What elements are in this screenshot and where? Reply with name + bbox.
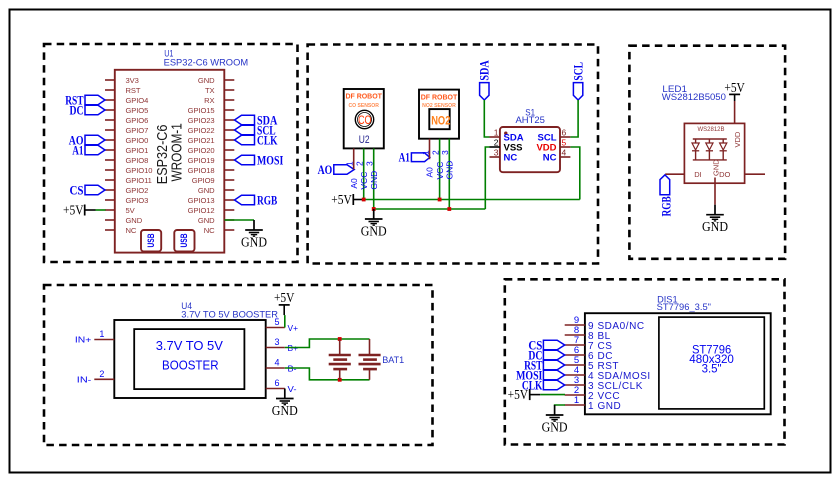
section outline: gas sensors [308, 45, 598, 264]
U1 right pin stubs [224, 80, 234, 230]
svg-text:GND: GND [702, 219, 728, 234]
U4 pin 2 stub [94, 378, 114, 380]
svg-text:1 GND: 1 GND [588, 401, 621, 412]
microcontroller U1 body [115, 70, 225, 253]
wire +5V to U1 5V pin [96, 209, 106, 211]
power flag +5V (LED1 VDD) [724, 80, 745, 101]
svg-text:IN-: IN- [77, 374, 92, 384]
S1 pin 5 stub [560, 146, 570, 148]
wire +5V to DIS1 VCC pin [540, 394, 565, 396]
LED1 DO pin stub [745, 173, 765, 175]
svg-text:RGB: RGB [257, 192, 278, 207]
svg-text:GPIO13: GPIO13 [188, 196, 215, 205]
svg-text:RX: RX [204, 96, 214, 105]
wire U2 pin 2 VCC to +5V rail [363, 148, 365, 199]
wire +5V rail [364, 199, 580, 201]
svg-text:GND: GND [126, 216, 143, 225]
gas sensor module (DF ROBOT NO2 sensor) [419, 90, 459, 139]
svg-text:GPIO23: GPIO23 [188, 116, 215, 125]
svg-text:3.7V TO 5V: 3.7V TO 5V [156, 338, 224, 353]
ground LED1 [702, 205, 728, 234]
S1 pin 3 stub [490, 156, 500, 158]
svg-text:3: 3 [274, 337, 279, 347]
svg-text:1: 1 [345, 161, 355, 166]
svg-text:+5V: +5V [508, 387, 529, 402]
svg-text:SCL: SCL [570, 62, 585, 81]
U4 pin 1 stub [94, 339, 114, 341]
net flag CLK [235, 132, 279, 147]
LED1 internal LED element 1 [692, 139, 699, 160]
U2 pin names A0 VCC GND [349, 171, 379, 190]
U4 pin 5 stub [266, 327, 285, 329]
svg-text:GPIO11: GPIO11 [126, 176, 152, 185]
U1 USB connector block 1 [141, 230, 161, 251]
power flag +5V (sensor rail) [331, 192, 363, 207]
LED1 cathode rail [693, 159, 727, 161]
svg-text:GPIO6: GPIO6 [126, 116, 149, 125]
junction at battery top [338, 337, 342, 341]
svg-text:GPIO15: GPIO15 [188, 106, 215, 115]
U4 pin 6 stub [266, 388, 285, 390]
svg-text:CO: CO [358, 113, 371, 127]
net flag SCL [235, 122, 276, 137]
svg-text:4: 4 [562, 147, 567, 157]
svg-text:NC: NC [204, 226, 215, 235]
svg-text:GPIO0: GPIO0 [126, 136, 149, 145]
svg-text:U2: U2 [359, 134, 370, 146]
svg-text:A0: A0 [349, 178, 359, 189]
svg-text:DF ROBOT: DF ROBOT [345, 92, 382, 101]
wire U1 GND pin to ground [224, 219, 254, 221]
net flag RGB (vertical) [659, 175, 674, 217]
U1 left pin stubs [105, 80, 115, 230]
U4 pin names V+ B+ B- V- [288, 323, 299, 394]
svg-text:RST: RST [126, 86, 141, 95]
svg-text:3: 3 [440, 150, 450, 155]
svg-text:GND: GND [198, 216, 215, 225]
svg-text:ESP32-C6 WROOM: ESP32-C6 WROOM [164, 58, 249, 68]
wire SCL flag to S1 pin6 [570, 100, 578, 137]
U4 pin names IN+ IN- [75, 334, 92, 384]
svg-text:USB: USB [146, 233, 157, 247]
svg-text:WS2812B: WS2812B [697, 127, 724, 133]
ground U1 [241, 220, 267, 249]
gas sensor module U2 (DF ROBOT CO sensor) [344, 89, 384, 148]
svg-text:5: 5 [562, 137, 567, 147]
svg-text:GND: GND [361, 223, 387, 238]
svg-text:NC: NC [504, 153, 518, 164]
svg-text:GND: GND [241, 234, 267, 249]
net flag RST (display) [524, 357, 565, 372]
DIS1 screen box [659, 317, 764, 409]
net flag A1 [72, 142, 105, 157]
svg-text:DF ROBOT: DF ROBOT [421, 92, 458, 101]
svg-text:GPIO1: GPIO1 [126, 146, 149, 155]
svg-text:BAT1: BAT1 [382, 355, 404, 365]
svg-text:IN+: IN+ [75, 334, 91, 344]
LED1 DI pin stub [665, 173, 684, 175]
svg-text:6: 6 [562, 127, 567, 137]
svg-text:USB: USB [179, 233, 190, 247]
S1 pin numbers [494, 127, 567, 157]
svg-text:1: 1 [494, 127, 499, 137]
LED1 internal LED element 2 [706, 139, 713, 160]
NO2 sensor pin 1 stub (A0) [429, 139, 431, 160]
svg-text:GND: GND [198, 76, 215, 85]
wire NO2 pin 3 GND to ground rail [448, 139, 450, 209]
svg-text:3.5": 3.5" [702, 362, 722, 376]
svg-text:GND: GND [445, 161, 455, 180]
NO2 sensor pin names A0 VCC GND [425, 161, 455, 180]
svg-text:2: 2 [99, 369, 104, 379]
ground sensor rail [361, 209, 387, 238]
svg-text:WS2812B5050: WS2812B5050 [662, 92, 726, 103]
section outline: RGB LED [629, 46, 785, 259]
svg-text:A1: A1 [399, 149, 410, 164]
net flag CS [70, 182, 106, 197]
svg-text:BOOSTER: BOOSTER [162, 357, 219, 372]
svg-text:VCC: VCC [359, 172, 369, 190]
svg-text:TX: TX [205, 86, 215, 95]
svg-text:+5V: +5V [724, 80, 745, 95]
wire DIS1 GND pin to ground [555, 404, 565, 407]
svg-text:6: 6 [274, 378, 279, 388]
junction at U2 VCC [362, 198, 366, 202]
DIS1 outside pin numbers 9..1 [574, 315, 579, 406]
DIS1 screen text [689, 343, 734, 376]
ground U4 V- [272, 389, 298, 418]
net flag SDA [235, 112, 278, 127]
U2 pin numbers 1 2 3 [345, 161, 375, 166]
svg-text:GPIO2: GPIO2 [126, 186, 149, 195]
svg-text:3.7V TO 5V BOOSTER: 3.7V TO 5V BOOSTER [181, 309, 278, 319]
wire ground rail [374, 208, 486, 210]
svg-text:1: 1 [574, 395, 579, 406]
svg-text:4: 4 [274, 358, 279, 368]
S1 pin 4 stub [560, 156, 570, 158]
net flag RGB [235, 192, 278, 207]
svg-text:AO: AO [318, 162, 333, 177]
svg-text:2: 2 [494, 137, 499, 147]
svg-text:2: 2 [355, 161, 365, 166]
wire SDA flag to S1 pin1 [484, 100, 489, 137]
wire +5V to U4 pin5 [284, 315, 286, 327]
svg-text:+5V: +5V [63, 203, 84, 218]
svg-text:GPIO22: GPIO22 [188, 126, 215, 135]
svg-text:GND: GND [369, 171, 379, 190]
junction at NO2 VCC [438, 198, 442, 202]
svg-text:3V3: 3V3 [126, 76, 139, 85]
section outline: display [505, 279, 785, 444]
net flag A1 (NO2 analog out) [399, 149, 430, 164]
net flag MOSI [235, 152, 284, 167]
svg-text:GPIO12: GPIO12 [188, 206, 215, 215]
net flag SDA [477, 60, 492, 100]
U1 left pin names [126, 76, 153, 235]
svg-text:1: 1 [420, 150, 430, 155]
svg-text:GPIO7: GPIO7 [126, 126, 149, 135]
LED1 GND pin lead [714, 178, 716, 205]
wire +5V to LED1 VDD pin [734, 101, 736, 134]
svg-text:A0: A0 [425, 167, 435, 178]
LED LED1 body [684, 123, 744, 183]
U2 pin 1 stub (A0) [353, 148, 355, 169]
svg-text:GPIO3: GPIO3 [126, 196, 149, 205]
net flag CS (display) [528, 337, 564, 352]
wire VSS riser to AHT25 pin2 [485, 147, 489, 209]
svg-text:A1: A1 [72, 142, 83, 157]
svg-text:+5V: +5V [331, 192, 352, 207]
svg-text:3: 3 [494, 147, 499, 157]
svg-text:AHT25: AHT25 [516, 115, 545, 125]
boost converter U4 outer body [114, 320, 265, 398]
svg-text:V-: V- [288, 384, 297, 394]
ground DIS1 [542, 405, 568, 434]
section outline: ESP32 MCU [44, 44, 298, 262]
svg-text:CO SENSOR: CO SENSOR [348, 103, 379, 109]
DIS1 inside pin numbers and names [588, 321, 651, 412]
section outline: boost converter [44, 285, 433, 445]
svg-text:V+: V+ [288, 323, 299, 333]
svg-text:GND: GND [542, 419, 568, 434]
net flag RST [65, 92, 105, 107]
svg-text:GPIO8: GPIO8 [126, 156, 149, 165]
junction at U2 GND [372, 207, 376, 211]
U4 pin 3 stub [266, 347, 285, 349]
LED1 internal LED element 3 [720, 139, 727, 160]
svg-text:GPIO5: GPIO5 [126, 106, 149, 115]
junction at battery bottom [338, 378, 342, 382]
svg-text:5: 5 [274, 317, 279, 327]
svg-text:NC: NC [543, 153, 557, 164]
net flag AO (U2 analog out) [318, 162, 355, 177]
display DIS1 body [585, 313, 771, 414]
net flag CLK (display) [522, 377, 565, 392]
S1 pin names [504, 133, 557, 164]
svg-text:DC: DC [70, 102, 84, 117]
svg-text:WROOM-1: WROOM-1 [169, 123, 186, 181]
U1 right pin names [188, 76, 215, 235]
svg-text:2: 2 [431, 150, 441, 155]
svg-text:MOSI: MOSI [257, 152, 283, 167]
LED1 anode rail [693, 138, 727, 140]
U4 inner box [134, 329, 244, 389]
power flag +5V (U1 5V pin) [63, 203, 96, 218]
net flag AO [69, 132, 105, 147]
power flag +5V (DIS1 VCC) [508, 387, 541, 402]
S1 pin 2 stub [490, 146, 500, 148]
battery BAT1 [329, 339, 381, 380]
power flag +5V (U4 V+) [274, 290, 295, 315]
svg-text:3: 3 [365, 161, 375, 166]
U4 pin numbers [99, 317, 279, 388]
svg-text:ST7796_3.5": ST7796_3.5" [657, 302, 711, 312]
svg-text:+5V: +5V [274, 290, 295, 305]
svg-text:SDA: SDA [477, 60, 492, 81]
wire VDD riser to AHT25 pin5 [570, 147, 579, 200]
svg-text:NO2: NO2 [431, 113, 450, 127]
net flag DC [70, 102, 106, 117]
wire U2 pin 3 GND to ground rail [373, 148, 375, 209]
svg-text:VDD: VDD [733, 131, 742, 147]
svg-text:GPIO4: GPIO4 [126, 96, 149, 105]
svg-text:GND: GND [272, 403, 298, 418]
NO2 sensor pin numbers 1 2 3 [420, 150, 450, 155]
S1 pin 1 indicator dot [504, 132, 507, 135]
svg-text:GPIO9: GPIO9 [192, 176, 215, 185]
wire U4 B+ to battery top [285, 339, 370, 348]
svg-text:DI: DI [694, 170, 702, 179]
U4 pin 4 stub [266, 367, 285, 369]
svg-text:GPIO19: GPIO19 [188, 156, 215, 165]
junction at NO2 GND [447, 207, 451, 211]
svg-text:RGB: RGB [659, 196, 674, 217]
S1 pin 6 stub [560, 136, 570, 138]
net flag DC (display) [528, 347, 564, 362]
U1 USB connector block 2 [174, 230, 194, 251]
svg-text:VCC: VCC [435, 162, 445, 180]
S1 pin 1 stub [490, 136, 500, 138]
DIS1 pin stubs 9..1 [565, 325, 585, 405]
svg-text:5V: 5V [126, 206, 136, 215]
wire NO2 pin 2 VCC to +5V rail [439, 139, 441, 200]
net flag MOSI (display) [516, 367, 565, 382]
svg-text:GPIO10: GPIO10 [126, 166, 153, 175]
svg-text:CLK: CLK [257, 132, 278, 147]
sensor S1 AHT25 body [500, 127, 560, 172]
svg-text:1: 1 [99, 329, 104, 339]
svg-text:GND: GND [198, 186, 215, 195]
svg-text:DO: DO [719, 170, 730, 179]
svg-text:GPIO21: GPIO21 [188, 136, 215, 145]
svg-text:CS: CS [70, 182, 84, 197]
svg-text:NC: NC [126, 226, 137, 235]
svg-text:GPIO18: GPIO18 [188, 166, 215, 175]
net flag SCL [570, 62, 585, 100]
svg-text:GPIO20: GPIO20 [188, 146, 215, 155]
wire U4 B- to battery bottom [285, 368, 370, 380]
